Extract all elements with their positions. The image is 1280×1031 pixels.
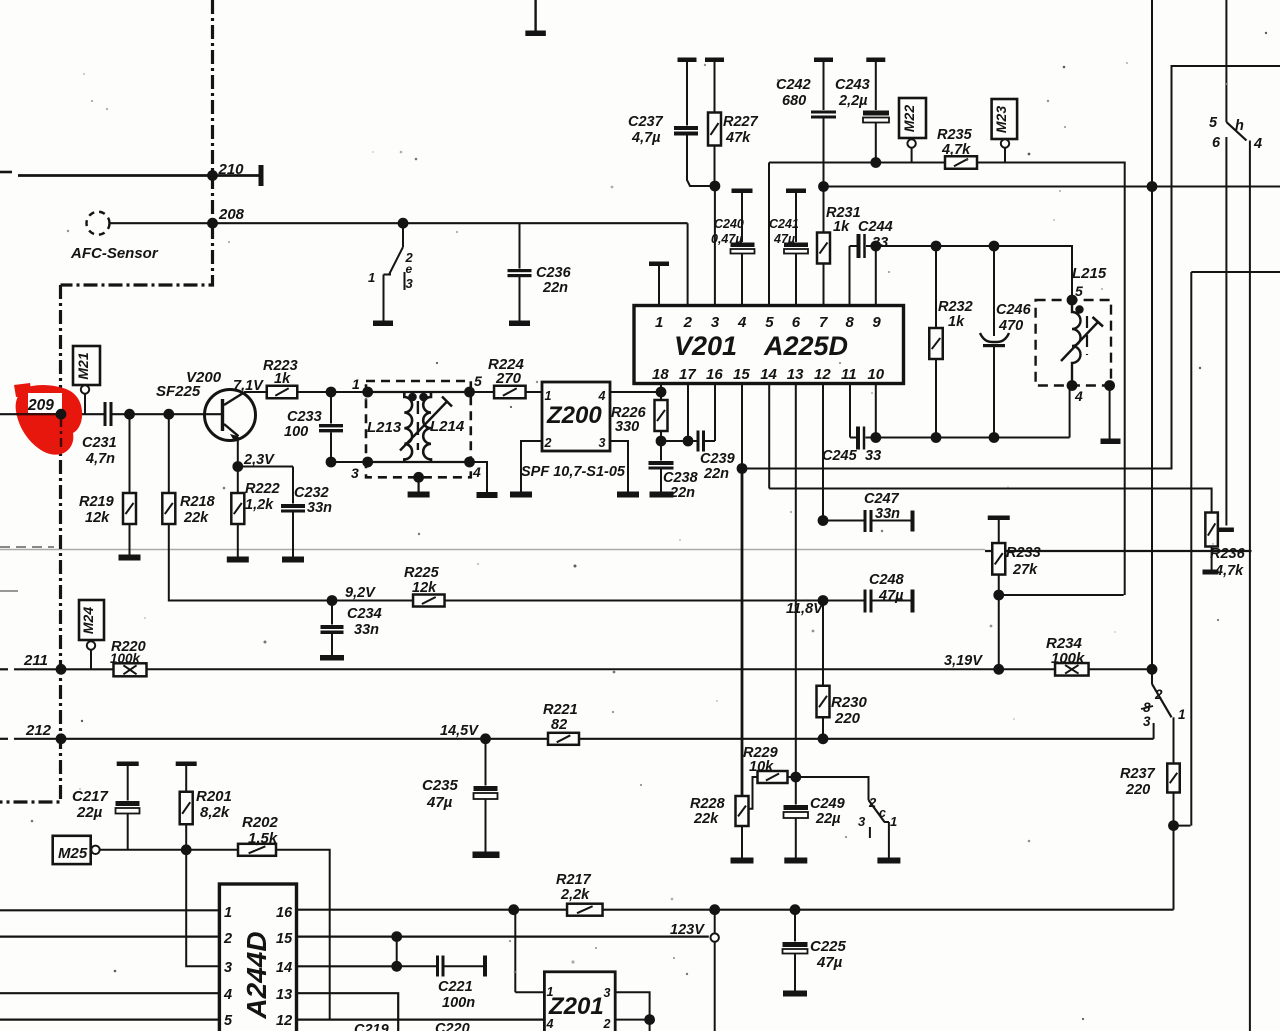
connector M24: [79, 600, 104, 640]
ground C238: [650, 492, 674, 498]
junction R218 top: [163, 409, 174, 420]
svg-text:7: 7: [819, 314, 828, 331]
cut stub top center: [534, 0, 536, 31]
svg-text:82: 82: [551, 717, 567, 733]
resistor R219: [129, 414, 131, 493]
svg-text:33: 33: [872, 235, 888, 251]
svg-text:A244D: A244D: [241, 931, 272, 1019]
trimmer capacitor C246: [993, 246, 995, 336]
wire Z200 pin3 ground: [610, 441, 628, 492]
svg-text:1,5k: 1,5k: [248, 830, 278, 847]
wire bus V1: [1151, 187, 1153, 670]
svg-text:1: 1: [890, 814, 897, 829]
wire bus V4 top: [1225, 0, 1227, 122]
svg-text:11: 11: [841, 366, 857, 383]
resistor R223: [244, 391, 267, 393]
junction R219 top: [124, 409, 135, 420]
svg-text:211: 211: [23, 652, 48, 669]
junction pin15 wire: [737, 463, 748, 474]
svg-text:R237: R237: [1120, 766, 1156, 782]
scan seam line: [0, 549, 985, 551]
svg-text:R233: R233: [1006, 545, 1041, 561]
wire A244D pin3: [186, 850, 219, 967]
svg-text:M24: M24: [80, 607, 96, 634]
svg-text:R232: R232: [938, 299, 973, 315]
svg-text:212: 212: [25, 722, 52, 739]
svg-text:4: 4: [1253, 136, 1262, 152]
svg-text:2: 2: [683, 314, 693, 331]
svg-text:C237: C237: [628, 114, 664, 130]
ground C249: [784, 858, 807, 864]
svg-text:5: 5: [765, 314, 774, 331]
svg-text:3: 3: [406, 276, 414, 291]
svg-text:C221: C221: [438, 979, 473, 995]
svg-text:33: 33: [865, 448, 881, 464]
wire rail to right bus: [977, 163, 1125, 596]
pin 17 stub: [687, 384, 689, 442]
IC A244D: [219, 884, 296, 1031]
wire bus V5 contact 4: [1249, 141, 1251, 1031]
svg-text:16: 16: [706, 366, 723, 383]
frame border dash-dot left: [0, 285, 61, 802]
wire Z200 pin2 ground: [521, 441, 542, 492]
svg-text:C241: C241: [769, 217, 799, 231]
pin 13 stub long: [795, 384, 797, 778]
pin 14 stub: [768, 384, 770, 489]
svg-text:14: 14: [276, 960, 292, 976]
junction R232 top: [931, 241, 942, 252]
junction R237 bottom: [1168, 820, 1179, 831]
svg-text:1,2k: 1,2k: [245, 497, 274, 513]
capacitor C243: [866, 58, 885, 63]
resistor R227: [705, 58, 724, 63]
svg-text:14,5V: 14,5V: [440, 723, 479, 739]
junction transformer pin 3: [362, 457, 373, 468]
svg-text:47µ: 47µ: [773, 232, 795, 246]
ground C235: [473, 852, 500, 859]
svg-text:220: 220: [834, 710, 861, 727]
resistor R218: [168, 414, 170, 493]
wire supply rail y162: [769, 162, 945, 164]
wire A244D pin1: [0, 909, 219, 911]
svg-text:5: 5: [224, 1013, 233, 1029]
wire visible through blob: [16, 413, 58, 415]
transformer dashed box L213 L214: [366, 381, 471, 477]
svg-text:100n: 100n: [442, 995, 475, 1011]
svg-text:C217: C217: [72, 788, 109, 805]
svg-text:22µ: 22µ: [76, 804, 103, 821]
svg-text:1: 1: [547, 985, 554, 999]
ground C225: [783, 991, 807, 997]
svg-text:1: 1: [368, 270, 375, 285]
junction L215 ground corner: [1104, 380, 1115, 391]
svg-text:1k: 1k: [833, 219, 850, 235]
svg-text:Z200: Z200: [546, 402, 602, 429]
capacitor C247: [823, 520, 864, 522]
svg-text:12k: 12k: [85, 510, 110, 526]
junction R234 right: [1147, 664, 1158, 675]
svg-text:33n: 33n: [875, 506, 900, 522]
switch S2 wire: [796, 777, 869, 800]
core line: [417, 401, 419, 450]
svg-text:C225: C225: [810, 938, 847, 955]
pin 15 stub long: [741, 384, 743, 469]
svg-text:R218: R218: [180, 494, 216, 510]
capacitor C237: [678, 58, 697, 63]
junction transformer pin 5: [464, 387, 475, 398]
coil L213: [404, 392, 412, 462]
wire Z201 pin2: [615, 1019, 649, 1021]
svg-text:2,3V: 2,3V: [243, 452, 275, 468]
svg-text:3: 3: [224, 960, 232, 976]
svg-text:270: 270: [495, 370, 522, 387]
capacitor C238: [660, 441, 662, 461]
junction R230 bottom: [818, 733, 829, 744]
svg-text:3: 3: [858, 814, 866, 829]
capacitor C231: [104, 402, 107, 426]
svg-text:4: 4: [598, 389, 606, 403]
svg-text:47k: 47k: [725, 130, 751, 146]
svg-text:C231: C231: [82, 435, 117, 451]
wire A244D pin15: [297, 935, 709, 937]
svg-text:10k: 10k: [749, 759, 774, 775]
junction 11,8V node: [818, 595, 829, 606]
junction pin13 bottom: [790, 772, 801, 783]
svg-text:2: 2: [603, 1017, 611, 1031]
svg-text:C248: C248: [869, 572, 905, 588]
svg-text:22µ: 22µ: [815, 811, 841, 827]
svg-text:4,7n: 4,7n: [85, 451, 115, 467]
svg-text:C236: C236: [536, 265, 572, 281]
svg-text:4,7k: 4,7k: [1214, 563, 1244, 579]
capacitor C244 with pin8 pin9: [849, 246, 851, 306]
resistor R234: [1055, 663, 1089, 676]
transistor V200: [205, 390, 256, 441]
switch S4 blade: [1226, 122, 1246, 141]
svg-text:C238: C238: [663, 470, 699, 486]
node 123V: [714, 910, 716, 934]
wire A244D pin14: [297, 965, 397, 967]
ground C234: [320, 655, 344, 661]
svg-text:100k: 100k: [1051, 650, 1085, 667]
svg-text:C240: C240: [714, 217, 744, 231]
capacitor C225: [794, 910, 796, 942]
svg-text:2: 2: [544, 436, 552, 450]
wire 212 to switch contact 3: [1153, 723, 1155, 739]
frame border dash-dot upper: [61, 0, 213, 285]
svg-text:AFC-Sensor: AFC-Sensor: [70, 245, 159, 262]
wire to right edge y272: [1191, 271, 1280, 273]
junction C233 bottom: [326, 457, 337, 468]
svg-text:C247: C247: [864, 491, 900, 507]
junction R231 top: [818, 181, 829, 192]
switch S2 blade: [869, 800, 885, 822]
wire node 210: [0, 171, 12, 174]
resistor R226: [655, 400, 668, 431]
pin 12 stub: [822, 384, 824, 521]
svg-text:1: 1: [224, 905, 232, 921]
arrow L215 adjustable: [1061, 322, 1098, 361]
svg-text:33n: 33n: [354, 622, 379, 638]
capacitor C249: [795, 777, 797, 805]
svg-text:R222: R222: [245, 481, 280, 497]
svg-text:27k: 27k: [1012, 562, 1038, 578]
svg-text:12: 12: [276, 1013, 292, 1029]
svg-text:M21: M21: [75, 352, 91, 379]
svg-text:C246: C246: [996, 302, 1032, 318]
wire C233 to L213 pin3: [331, 461, 368, 463]
svg-text:C239: C239: [700, 451, 735, 467]
connector M25: [53, 836, 91, 864]
capacitor C240: [732, 189, 753, 194]
svg-text:10: 10: [867, 366, 884, 383]
junction pin10: [870, 432, 881, 443]
junction pin18: [656, 387, 667, 398]
node 2,3V emitter: [232, 461, 243, 472]
wire transformer bottom: [368, 461, 470, 463]
junction node 212: [56, 733, 67, 744]
svg-text:C220: C220: [435, 1021, 470, 1031]
junction 3,19V: [993, 664, 1004, 675]
svg-text:5: 5: [1209, 115, 1218, 131]
svg-text:3: 3: [604, 986, 611, 1000]
svg-text:13: 13: [276, 987, 292, 1003]
svg-text:14: 14: [760, 366, 777, 383]
svg-text:C243: C243: [835, 77, 870, 93]
wire net to switch bus: [824, 186, 1280, 188]
pin 2 V201 stub: [687, 223, 689, 305]
wire pin 4 to ground: [470, 462, 488, 492]
wire R233 to right bus: [999, 594, 1124, 596]
svg-text:R219: R219: [79, 494, 114, 510]
resistor R201: [176, 762, 197, 767]
junction node 211: [56, 664, 67, 675]
svg-text:L214: L214: [430, 418, 465, 435]
svg-text:22k: 22k: [693, 811, 719, 827]
terminator node 210: [259, 165, 264, 186]
junction node 209: [56, 409, 67, 420]
svg-text:R228: R228: [690, 796, 726, 812]
coil L215 dashed box: [1036, 300, 1111, 386]
svg-text:c: c: [879, 806, 886, 820]
switch S2 contact 3 tick: [869, 827, 871, 838]
junction node 210: [207, 170, 218, 181]
wire pin14 net to R236: [769, 489, 1211, 513]
svg-text:L213: L213: [367, 419, 402, 436]
capacitor C217: [117, 762, 139, 767]
wire A244D pin2: [0, 935, 219, 937]
svg-text:100k: 100k: [110, 651, 142, 666]
svg-text:C242: C242: [776, 77, 811, 93]
white patch for 209 label: [28, 393, 62, 414]
wire bus V1 top: [1151, 0, 1153, 187]
svg-text:2: 2: [1154, 687, 1163, 702]
svg-text:SF225: SF225: [156, 383, 201, 400]
svg-text:6: 6: [792, 314, 801, 331]
left edge scan dashes: [0, 546, 54, 548]
junction node 208: [207, 218, 218, 229]
ground switch S2: [877, 858, 900, 864]
svg-text:R221: R221: [543, 702, 578, 718]
connector M23: [992, 99, 1018, 139]
ground R236: [1203, 570, 1219, 575]
svg-text:22n: 22n: [669, 485, 695, 501]
svg-text:C219: C219: [354, 1022, 389, 1031]
svg-text:3: 3: [1143, 714, 1151, 729]
resistor R232: [935, 246, 937, 328]
wire node 208: [110, 222, 688, 224]
svg-text:22n: 22n: [703, 466, 729, 482]
svg-text:15: 15: [733, 366, 750, 383]
wire node 209: [0, 413, 104, 415]
wire pin15 net to top right: [742, 66, 1280, 469]
resistor R230: [822, 601, 824, 687]
junction pin17: [683, 436, 694, 447]
svg-text:209: 209: [27, 397, 54, 414]
svg-text:M23: M23: [993, 106, 1009, 133]
svg-text:M22: M22: [901, 105, 917, 132]
resistor R217: [567, 904, 603, 916]
junction C247 tap: [818, 515, 829, 526]
svg-text:0,47µ: 0,47µ: [711, 232, 743, 246]
junction C233 top: [326, 387, 337, 398]
svg-text:1k: 1k: [948, 314, 965, 330]
coil L215 winding: [1075, 305, 1083, 313]
ground R219: [119, 555, 141, 561]
capacitor C235: [485, 739, 487, 786]
svg-text:R201: R201: [196, 788, 232, 805]
svg-text:C244: C244: [858, 219, 893, 235]
center tap ground: [413, 472, 424, 483]
junction C243 rail: [870, 157, 881, 168]
ground R222: [227, 557, 249, 563]
wire transformer top: [368, 391, 470, 393]
svg-text:R202: R202: [242, 814, 279, 831]
svg-text:4: 4: [737, 314, 747, 331]
junction pin3 node: [710, 181, 721, 192]
wire pin 3 V201: [714, 186, 716, 306]
junction 14,5V C235: [480, 733, 491, 744]
wire M25 node: [100, 849, 238, 851]
junction C246 top: [989, 241, 1000, 252]
AFC sensor circle: [87, 212, 110, 235]
svg-text:5: 5: [1075, 283, 1083, 299]
svg-text:2: 2: [223, 931, 232, 947]
capacitor C242: [814, 58, 833, 63]
svg-text:3: 3: [351, 465, 359, 481]
svg-text:11,8V: 11,8V: [786, 601, 824, 617]
svg-text:47µ: 47µ: [816, 954, 843, 971]
svg-text:330: 330: [615, 419, 639, 435]
wire Z201 pin3: [615, 992, 649, 1019]
IC V201 A225D: [634, 306, 904, 384]
wire Z200 pin4 to pin18: [610, 391, 661, 393]
wire pin 5 V201 from rail: [768, 163, 770, 306]
switch S3 blade: [1152, 684, 1172, 717]
resistor R225: [413, 595, 445, 607]
svg-text:5: 5: [474, 373, 482, 389]
capacitor C236: [519, 223, 521, 268]
wire bus V4 lower: [1225, 137, 1227, 526]
junction transformer pin 1: [362, 387, 373, 398]
svg-text:8: 8: [846, 314, 855, 331]
svg-text:470: 470: [998, 318, 1023, 334]
capacitor C232: [281, 504, 305, 508]
svg-text:R225: R225: [404, 565, 440, 581]
switch S1 contacts 1-2-3: [398, 218, 409, 229]
svg-text:C232: C232: [294, 485, 329, 501]
svg-text:9,2V: 9,2V: [345, 585, 376, 601]
junction Z201 pin1 tap: [508, 904, 519, 915]
svg-text:4: 4: [472, 464, 481, 480]
junction Z201 pin2: [644, 1014, 655, 1025]
svg-text:C249: C249: [810, 796, 845, 812]
resistor R202: [238, 844, 276, 856]
arrow variable transformer: [400, 402, 447, 451]
svg-text:22k: 22k: [183, 510, 209, 526]
junction 123V tap: [709, 904, 720, 915]
wire segment on seam to contact-4 bus: [985, 550, 1252, 552]
svg-text:V201: V201: [674, 331, 737, 361]
ground C236: [509, 321, 530, 327]
svg-text:12k: 12k: [412, 580, 437, 596]
svg-text:L215: L215: [1072, 265, 1107, 282]
resistor R231: [823, 187, 825, 233]
junction bus x1152: [1147, 181, 1158, 192]
wire node 212: [0, 738, 8, 740]
svg-text:R217: R217: [556, 872, 592, 888]
svg-text:A225D: A225D: [763, 331, 848, 361]
pin 11 stub: [849, 384, 851, 438]
resistor R233: [988, 516, 1010, 521]
svg-text:SPF 10,7-S1-05: SPF 10,7-S1-05: [521, 464, 626, 480]
IC Z200: [542, 382, 610, 451]
svg-text:33n: 33n: [307, 500, 332, 516]
wire bottom of R232 C246 L215: [876, 437, 1070, 439]
junction R233 bottom: [993, 590, 1004, 601]
svg-text:3,19V: 3,19V: [944, 653, 983, 669]
svg-text:4,7k: 4,7k: [941, 142, 971, 158]
ground C232: [282, 557, 304, 563]
svg-text:R236: R236: [1210, 546, 1246, 562]
junction transformer pin 4: [464, 457, 475, 468]
svg-text:100: 100: [284, 424, 308, 440]
svg-text:C234: C234: [347, 606, 382, 622]
svg-text:h: h: [1235, 118, 1244, 134]
wire C244 node to L215: [876, 246, 1072, 300]
svg-text:1: 1: [545, 389, 552, 403]
junction L215 pin 4: [1067, 380, 1078, 391]
svg-text:R227: R227: [723, 114, 759, 130]
svg-text:220: 220: [1125, 782, 1150, 798]
coil L214: [423, 392, 431, 462]
svg-text:2,2µ: 2,2µ: [838, 93, 868, 109]
capacitor C221: [397, 965, 436, 967]
svg-text:123V: 123V: [670, 922, 705, 938]
svg-text:208: 208: [218, 206, 245, 223]
svg-text:R235: R235: [937, 127, 973, 143]
wire node 211: [0, 668, 8, 670]
svg-text:4: 4: [223, 987, 232, 1003]
wire A244D pin4: [0, 992, 219, 994]
svg-text:R230: R230: [831, 694, 868, 711]
capacitor C239: [661, 440, 697, 442]
svg-text:C235: C235: [422, 777, 459, 794]
junction pin15 pin14 strap: [391, 931, 402, 942]
capacitor C248: [823, 600, 864, 602]
capacitor C233: [330, 392, 332, 424]
capacitor C241: [786, 189, 806, 194]
